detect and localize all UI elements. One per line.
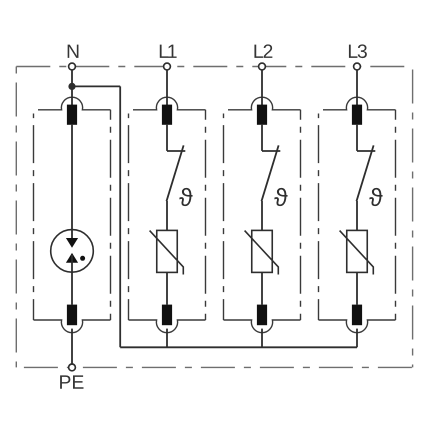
label N bbox=[68, 45, 79, 58]
module box L2 left edge (dash-dot) bbox=[223, 114, 225, 321]
outer enclosure dashed border bottom bbox=[24, 366, 413, 368]
terminal circle L1 bbox=[164, 63, 171, 70]
wire L3 switch to varistor bbox=[356, 201, 358, 230]
outer enclosure dashed border left bbox=[15, 67, 17, 368]
varistor L1 body bbox=[157, 230, 178, 272]
spark gap trigger dot bbox=[80, 256, 85, 261]
module box L3 top edge with plug-in arc bbox=[323, 97, 396, 110]
plug-in terminal contact bottom of module L3 bbox=[352, 305, 362, 326]
wire L3 bottom terminal to bus bbox=[356, 329, 358, 348]
wire L3 varistor to bottom terminal bbox=[356, 272, 358, 304]
module box L1 top edge with plug-in arc bbox=[133, 97, 206, 110]
wire N junction to bus elbow bbox=[72, 85, 120, 87]
module box L2 top edge with plug-in arc bbox=[228, 97, 301, 110]
wire terminal L1 down to module bbox=[166, 70, 168, 106]
wire L2 module above disconnector bbox=[261, 125, 263, 151]
wire L3 module above disconnector bbox=[356, 125, 358, 151]
terminal circle L3 bbox=[354, 63, 361, 70]
outer enclosure dashed border right bbox=[412, 67, 414, 368]
thermal disconnector switch L2 blade bbox=[262, 145, 279, 201]
module box L1 bottom edge with plug-in arc bbox=[129, 320, 206, 333]
junction node N bus tap (dot) bbox=[68, 83, 75, 90]
plug-in terminal contact bottom of module L2 bbox=[257, 305, 267, 326]
wire bus bottom horizontal to L1 L2 L3 bbox=[120, 346, 357, 348]
wire N module upper internal bbox=[71, 125, 73, 246]
thermal disconnector switch L2 fixed contact tick bbox=[262, 150, 280, 152]
terminal circle N bbox=[69, 63, 76, 70]
varistor L1 diagonal stroke bbox=[150, 231, 184, 275]
thermal symbol theta L3 bbox=[369, 188, 382, 206]
plug-in terminal contact top of module L2 bbox=[257, 105, 267, 125]
wire N module lower internal bbox=[71, 255, 73, 305]
wire L1 module above disconnector bbox=[166, 125, 168, 151]
terminal circle PE bbox=[69, 364, 76, 371]
wire L2 switch to varistor bbox=[261, 201, 263, 230]
wire terminal N down to module bbox=[71, 70, 73, 106]
wire L2 bottom terminal to bus bbox=[261, 329, 263, 348]
thermal disconnector switch L3 blade bbox=[357, 145, 374, 201]
varistor L3 body bbox=[347, 230, 368, 272]
spark gap upper electrode (down triangle) bbox=[66, 238, 78, 248]
spark gap N-PE circle body bbox=[51, 230, 94, 273]
thermal disconnector switch L1 fixed contact tick bbox=[167, 150, 185, 152]
thermal symbol theta L2 bbox=[274, 188, 287, 206]
module box L2 right edge (dash-dot) bbox=[300, 110, 302, 320]
varistor L3 diagonal stroke bbox=[340, 231, 374, 275]
wire L1 switch to varistor bbox=[166, 201, 168, 230]
module box L1 left edge (dash-dot) bbox=[128, 114, 130, 321]
plug-in terminal contact top of module N bbox=[67, 105, 77, 125]
module box L3 left edge (dash-dot) bbox=[318, 114, 320, 321]
wire terminal L2 down to module bbox=[261, 70, 263, 106]
module box N bottom edge with plug-in arc bbox=[34, 320, 111, 333]
wire N module to PE terminal bbox=[71, 329, 73, 364]
outer enclosure dashed border top bbox=[16, 66, 412, 68]
thermal disconnector switch L3 fixed contact tick bbox=[357, 150, 375, 152]
plug-in terminal contact bottom of module L1 bbox=[162, 305, 172, 326]
wire L1 bottom terminal to bus bbox=[166, 329, 168, 348]
module box L3 right edge (dash-dot) bbox=[395, 110, 397, 320]
plug-in terminal contact top of module L1 bbox=[162, 105, 172, 125]
module box L2 bottom edge with plug-in arc bbox=[224, 320, 301, 333]
wire L1 varistor to bottom terminal bbox=[166, 272, 168, 304]
spark gap lower electrode (up triangle) bbox=[66, 253, 78, 263]
module box N top edge with plug-in arc bbox=[38, 97, 111, 110]
plug-in terminal contact top of module L3 bbox=[352, 105, 362, 125]
label L3 bbox=[349, 44, 367, 58]
label PE bbox=[60, 375, 83, 388]
thermal disconnector switch L1 blade bbox=[167, 145, 184, 201]
wire bus vertical down between modules bbox=[119, 86, 121, 347]
module box N left edge (dash-dot) bbox=[33, 114, 35, 321]
module box N right edge (dash-dot) bbox=[110, 110, 112, 320]
module box L3 bottom edge with plug-in arc bbox=[319, 320, 396, 333]
module box L1 right edge (dash-dot) bbox=[205, 110, 207, 320]
varistor L2 body bbox=[252, 230, 273, 272]
plug-in terminal contact bottom of module N bbox=[67, 305, 77, 326]
varistor L2 diagonal stroke bbox=[245, 231, 279, 275]
thermal symbol theta L1 bbox=[179, 188, 192, 206]
label L2 bbox=[254, 44, 272, 58]
label L1 bbox=[160, 45, 177, 58]
terminal circle L2 bbox=[259, 63, 266, 70]
wire L2 varistor to bottom terminal bbox=[261, 272, 263, 304]
wire terminal L3 down to module bbox=[356, 70, 358, 106]
